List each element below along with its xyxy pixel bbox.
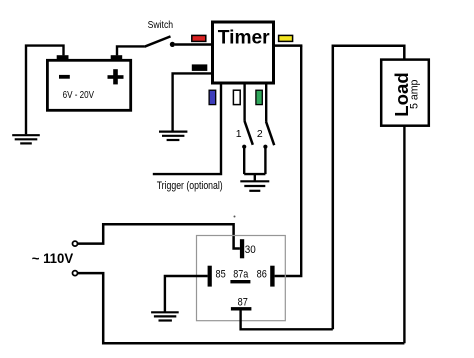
wire relay pin 85 to ground <box>165 276 208 312</box>
relay pin 86 blade <box>270 266 274 287</box>
relay K1 box <box>197 236 286 321</box>
black wire stub <box>192 64 208 71</box>
svg-text:~ 110V: ~ 110V <box>32 251 74 266</box>
red wire stub <box>192 35 206 41</box>
wire load bottom down <box>403 126 405 344</box>
relay pin 87a blade <box>230 280 250 283</box>
wire switch1 dot down <box>243 147 245 174</box>
ground (battery) <box>12 135 40 143</box>
wire to trigger ground <box>254 174 256 181</box>
svg-text:86: 86 <box>257 268 267 280</box>
trigger switch 1 blade <box>245 121 253 145</box>
ground (trigger) <box>240 181 269 191</box>
svg-text:87: 87 <box>238 296 248 308</box>
svg-text:2: 2 <box>257 128 263 140</box>
yellow wire stub <box>279 35 293 41</box>
relay pin 30 blade <box>240 239 244 258</box>
relay pin 87 blade <box>231 307 252 310</box>
switch contact dot <box>170 42 175 47</box>
svg-text:Trigger (optional): Trigger (optional) <box>157 180 223 192</box>
svg-text:1: 1 <box>236 128 242 140</box>
stray dot mark <box>234 216 236 218</box>
wire timer pin1 down to trigger line <box>153 83 221 174</box>
wire timer pin3 down <box>265 83 267 122</box>
wire timer right to down branch <box>274 44 302 47</box>
wire load branch riser <box>333 46 405 330</box>
timer U1 box <box>213 22 274 83</box>
svg-text:5 amp: 5 amp <box>408 79 420 109</box>
ground (relay) <box>151 312 179 320</box>
AC terminal lower <box>73 271 78 276</box>
ground (timer) <box>159 132 187 140</box>
svg-text:87a: 87a <box>233 268 248 280</box>
trigger switch 2 blade <box>266 122 274 146</box>
wire upper terminal to relay pin30 <box>78 224 240 248</box>
blue wire stub <box>209 90 216 104</box>
wire battery negative to ground <box>26 46 64 135</box>
white wire stub <box>233 90 240 104</box>
battery B1 box <box>47 60 130 110</box>
wire down right side to relay pin 86 <box>275 46 302 276</box>
wire lower terminal to load bottom <box>78 273 404 343</box>
relay pin 85 blade <box>208 266 212 287</box>
wire switch2 dot down <box>264 147 266 174</box>
wire joining trigger contacts <box>244 173 265 175</box>
svg-text:30: 30 <box>245 244 256 256</box>
battery minus sign <box>59 75 70 79</box>
wire timer pin2 down <box>243 83 245 121</box>
trigger switch 2 contact dot <box>263 145 267 149</box>
battery plus sign <box>108 69 124 84</box>
wire switch to timer <box>175 43 212 45</box>
trigger switch 1 contact dot <box>242 145 246 149</box>
svg-text:6V - 20V: 6V - 20V <box>63 90 95 101</box>
wire relay pin 87 to load branch <box>241 310 333 329</box>
load box <box>381 60 429 126</box>
svg-text:85: 85 <box>216 268 226 280</box>
switch blade <box>144 36 170 46</box>
svg-text:Timer: Timer <box>218 27 270 48</box>
green wire stub <box>256 90 262 104</box>
wire timer left to ground <box>173 73 212 131</box>
battery positive terminal post <box>111 55 123 60</box>
AC terminal upper <box>73 241 78 246</box>
svg-text:Switch: Switch <box>148 20 174 31</box>
wire battery positive to switch <box>117 46 144 55</box>
battery negative terminal post <box>57 55 69 60</box>
